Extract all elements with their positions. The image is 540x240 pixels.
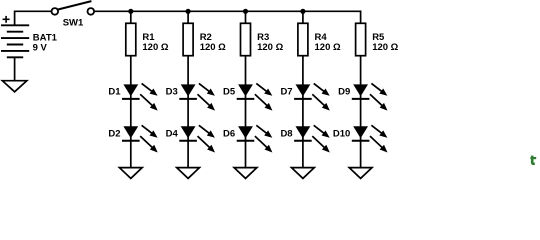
ground (column 5): [349, 168, 372, 179]
resistor R3: [241, 23, 251, 55]
svg-text:9 V: 9 V: [33, 42, 48, 53]
svg-text:D3: D3: [166, 87, 178, 98]
D7 emission arrows: [312, 83, 330, 110]
ground (column 4): [292, 168, 315, 179]
LED D6: [237, 126, 255, 141]
wire R4 to D7 to D8 to ground: [302, 56, 304, 168]
SW1 right contact: [88, 8, 95, 15]
LED D5: [237, 84, 255, 99]
wire bus to R3: [245, 11, 247, 23]
wire bus to R1: [130, 11, 132, 23]
D2 emission arrows: [140, 125, 158, 152]
wire R1 to D1 to D2 to ground: [130, 56, 132, 168]
LED D10: [352, 126, 370, 141]
ground (column 3): [234, 168, 257, 179]
D3 emission arrows: [198, 83, 216, 110]
wire R2 to D3 to D4 to ground: [187, 56, 189, 168]
svg-text:D9: D9: [338, 87, 350, 98]
LED D4: [179, 126, 197, 141]
wire battery negative to ground: [14, 57, 16, 80]
wire R3 to D5 to D6 to ground: [245, 56, 247, 168]
resistor R5: [356, 23, 366, 55]
wire bus to R2: [187, 11, 189, 23]
LED D2: [122, 126, 140, 141]
resistor R1: [126, 23, 136, 55]
watermark t (green): [530, 156, 536, 164]
svg-text:D6: D6: [223, 129, 235, 140]
ground (battery): [2, 81, 26, 92]
switch SW1 lever: [58, 1, 92, 10]
D6 emission arrows: [255, 125, 273, 152]
node: branch R3 junction: [243, 9, 248, 14]
svg-text:120 Ω: 120 Ω: [372, 42, 398, 53]
SW1 left contact: [52, 8, 59, 15]
svg-text:D1: D1: [108, 87, 121, 98]
wire bus to R4: [302, 11, 304, 23]
svg-text:D4: D4: [166, 129, 179, 140]
D8 emission arrows: [312, 125, 330, 152]
svg-text:D5: D5: [223, 87, 236, 98]
D10 emission arrows: [370, 125, 388, 152]
LED D7: [294, 84, 312, 99]
resistor R2: [183, 23, 193, 55]
ground (column 1): [119, 168, 142, 179]
wire battery positive to SW1 left contact: [15, 11, 52, 25]
LED D3: [179, 84, 197, 99]
svg-text:120 Ω: 120 Ω: [257, 42, 283, 53]
battery BAT1: [1, 25, 29, 57]
svg-text:120 Ω: 120 Ω: [142, 42, 168, 53]
ground (column 2): [177, 168, 200, 179]
node: branch R5 junction: [360, 10, 362, 12]
svg-text:D2: D2: [108, 129, 120, 140]
svg-text:120 Ω: 120 Ω: [315, 42, 341, 53]
resistor R4: [298, 23, 308, 55]
plus sign (battery positive): [3, 16, 10, 23]
svg-text:D8: D8: [280, 129, 292, 140]
node: branch R1 junction: [128, 9, 133, 14]
node: branch R4 junction: [300, 9, 305, 14]
LED D1: [122, 84, 140, 99]
top bus wire from SW1 to R5 branch: [95, 10, 361, 12]
LED D8: [294, 126, 312, 141]
svg-text:120 Ω: 120 Ω: [200, 42, 226, 53]
D5 emission arrows: [255, 83, 273, 110]
wire R5 to D9 to D10 to ground: [360, 56, 362, 168]
D1 emission arrows: [140, 83, 158, 110]
LED D9: [352, 84, 370, 99]
wire bus to R5: [360, 11, 362, 23]
svg-text:D7: D7: [280, 87, 292, 98]
node: branch R2 junction: [186, 9, 191, 14]
svg-text:D10: D10: [333, 129, 350, 140]
D9 emission arrows: [370, 83, 388, 110]
svg-text:SW1: SW1: [63, 18, 84, 29]
D4 emission arrows: [198, 125, 216, 152]
